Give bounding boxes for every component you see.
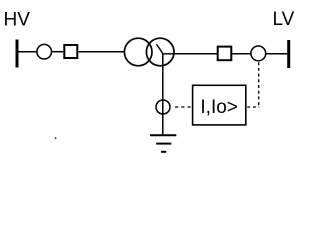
breaker Q2 (LV) <box>218 47 232 61</box>
wire: CT2 to LV bus <box>266 53 288 55</box>
CT2 (LV current transformer) <box>251 46 266 61</box>
neutral wire: wye point down to earth <box>162 54 164 135</box>
CT3 (neutral current transformer) <box>156 100 170 114</box>
wire: breaker Q1 to transformer T1 <box>79 51 126 53</box>
svg-text:I,Io>: I,Io> <box>200 97 238 118</box>
wire: breaker Q2 to CT2 <box>232 53 251 55</box>
HV busbar <box>16 40 19 68</box>
dashed wire: relay to CT2 (vertical) <box>258 62 260 107</box>
wire: HV bus to CT1 <box>19 51 38 53</box>
breaker Q1 (HV) <box>64 45 77 58</box>
transformer T1 primary winding <box>124 38 152 66</box>
wire: transformer to LV breaker <box>172 53 217 55</box>
dashed wire: CT3 to relay <box>175 106 192 108</box>
stray dot mark <box>55 137 57 139</box>
relay K1 box <box>193 85 246 125</box>
LV busbar <box>287 40 290 68</box>
dashed wire: relay to CT2 (horizontal) <box>247 106 259 108</box>
ground (earth) symbol <box>150 135 176 152</box>
svg-text:HV: HV <box>4 10 31 31</box>
CT1 (HV current transformer) <box>37 44 52 59</box>
transformer T1 secondary winding <box>146 38 174 66</box>
wye (star) symbol in secondary <box>157 44 175 54</box>
wire: CT1 to breaker Q1 <box>52 51 64 53</box>
svg-text:LV: LV <box>273 9 295 30</box>
